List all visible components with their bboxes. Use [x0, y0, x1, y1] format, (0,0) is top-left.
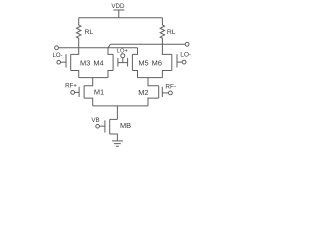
VB input terminal [96, 124, 100, 128]
RF+ input terminal [71, 91, 75, 95]
wire: right output net [110, 43, 185, 45]
wire: left LO- gate [61, 61, 67, 63]
svg-text:M6: M6 [152, 58, 162, 67]
svg-text:VDD: VDD [111, 3, 125, 10]
output terminal (left) [55, 46, 59, 50]
transistor M3 [66, 48, 79, 78]
wire: left output net [58, 47, 137, 49]
transistor M1 [79, 78, 93, 106]
wire: RF- gate [162, 92, 168, 94]
LO+ input terminal (center) [121, 54, 125, 58]
svg-text:M1: M1 [94, 87, 104, 96]
wire: top supply rail [79, 17, 163, 19]
svg-text:RL: RL [85, 29, 94, 36]
svg-text:VB: VB [91, 117, 99, 124]
wire: common source rail M3/M4 [79, 77, 108, 79]
LO- input terminal (left) [57, 60, 61, 64]
ground [112, 141, 123, 146]
LO- input terminal (right) [182, 60, 186, 64]
svg-text:RF-: RF- [165, 84, 176, 91]
svg-text:LO+: LO+ [117, 49, 129, 55]
wire: right LO- gate [177, 61, 182, 63]
resistor RL (left) [76, 18, 80, 48]
svg-text:LO-: LO- [180, 51, 191, 58]
VDD supply symbol [113, 10, 124, 18]
svg-text:M4: M4 [93, 58, 103, 67]
transistor M4 [108, 44, 118, 77]
transistor M2 [148, 78, 162, 106]
svg-text:M5: M5 [138, 58, 148, 67]
wire: tail to MB drain [116, 106, 118, 120]
transistor M6 [162, 44, 177, 77]
svg-text:RF+: RF+ [65, 83, 77, 90]
svg-text:MB: MB [120, 121, 131, 130]
output terminal (right) [185, 42, 189, 46]
svg-text:LO-: LO- [52, 53, 62, 59]
transistor MB [105, 119, 118, 140]
svg-text:M2: M2 [138, 88, 148, 97]
wire: LO+ gate tee [118, 58, 128, 63]
RF- input terminal [169, 91, 173, 95]
resistor RL (right) [160, 18, 164, 45]
wire: RF+ gate [75, 91, 80, 93]
svg-text:M3: M3 [80, 58, 90, 67]
wire: tail rail [93, 105, 148, 107]
wire: VB gate [99, 125, 105, 127]
transistor M5 [128, 48, 138, 78]
svg-text:RL: RL [167, 29, 176, 36]
wire: common source rail M5/M6 [138, 77, 163, 79]
